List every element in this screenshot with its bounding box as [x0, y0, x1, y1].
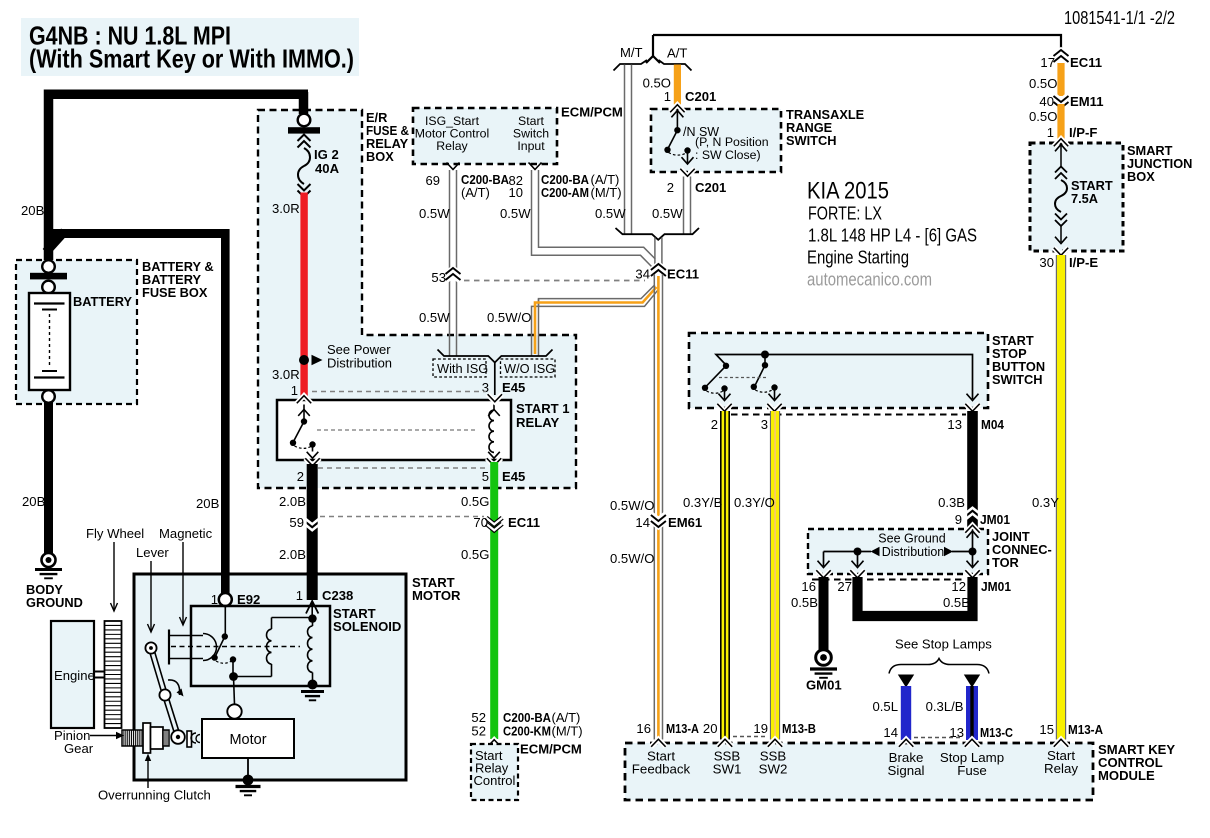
connector E92 circle — [219, 593, 232, 606]
svg-text:27: 27 — [837, 579, 852, 594]
svg-text:EC11: EC11 — [1070, 55, 1102, 70]
svg-text:MOTOR: MOTOR — [412, 588, 461, 603]
svg-text:12: 12 — [951, 579, 966, 594]
start relay control box — [487, 740, 501, 748]
svg-text:GM01: GM01 — [806, 678, 842, 693]
wire 0.5L brake signal — [901, 686, 911, 740]
wire 0.3Y/O SSB SW2 — [770, 411, 772, 740]
wire battery feed top — [44, 90, 54, 262]
svg-text:BOX: BOX — [366, 149, 394, 164]
TRS pin 1 notch — [670, 105, 684, 113]
svg-text:0.5W: 0.5W — [652, 206, 683, 221]
funnel into With ISG — [438, 350, 495, 363]
svg-text:13: 13 — [947, 417, 962, 432]
svg-text:52: 52 — [471, 724, 486, 739]
dashed connector line JM01 — [812, 579, 966, 581]
fly wheel gear — [105, 621, 122, 728]
svg-text:IG 2: IG 2 — [314, 147, 339, 162]
JC internal wires — [967, 531, 979, 538]
pin 69 connector leave — [447, 163, 460, 170]
svg-text:0.3Y/O: 0.3Y/O — [734, 495, 775, 510]
svg-text:9: 9 — [955, 512, 962, 527]
svg-text:1: 1 — [1047, 125, 1054, 140]
W/O ISG box — [501, 359, 556, 377]
dashed connector line M04 — [731, 414, 966, 416]
svg-text:M/T: M/T — [620, 45, 643, 60]
engine flywheel link — [94, 671, 105, 673]
svg-text:40A: 40A — [315, 161, 340, 176]
smart key control module box — [625, 743, 1093, 800]
svg-text:0.5G: 0.5G — [461, 547, 489, 562]
SSB internal wire — [716, 355, 973, 400]
svg-text:0.3Y/B: 0.3Y/B — [683, 495, 723, 510]
fuse IG 2 40A — [298, 135, 311, 142]
JC bottom notches — [816, 570, 830, 578]
svg-text:EC11: EC11 — [508, 515, 540, 530]
svg-text:0.5W/O: 0.5W/O — [610, 551, 654, 566]
connector 40 EM11 — [1054, 96, 1069, 102]
SKCM pin notches — [651, 739, 665, 747]
svg-text:ECM/PCM: ECM/PCM — [561, 105, 623, 120]
svg-text:FORTE: LX: FORTE: LX — [808, 204, 882, 224]
svg-text:(M/T): (M/T) — [591, 185, 622, 200]
svg-text:Magnetic: Magnetic — [159, 526, 213, 541]
relay internal dashed link — [317, 429, 478, 431]
svg-text:I/P-F: I/P-F — [1069, 125, 1097, 140]
svg-text:3: 3 — [482, 380, 489, 395]
svg-text:0.5W: 0.5W — [595, 206, 626, 221]
wire C238 stub inside box — [307, 572, 318, 600]
title block — [21, 18, 359, 76]
svg-text:59: 59 — [289, 515, 304, 530]
svg-text:0.5W: 0.5W — [419, 206, 450, 221]
wire 0.3Y/B SSB SW1 — [720, 411, 730, 740]
wire top right run — [653, 35, 1061, 55]
joint connector box — [808, 529, 988, 574]
start motor box — [134, 574, 406, 780]
svg-text:0.5W/O: 0.5W/O — [610, 498, 654, 513]
wire 0.3B SSB — [967, 411, 978, 529]
smart junction box — [1030, 143, 1123, 251]
svg-text:automecanico.com: automecanico.com — [807, 269, 932, 290]
wire TRS to EC11 white — [683, 177, 685, 234]
svg-text:0.5W: 0.5W — [500, 206, 531, 221]
wire to relay pin 3 — [494, 363, 496, 396]
dashed connector line 59-70 — [320, 516, 484, 518]
svg-text:With ISG: With ISG — [437, 361, 488, 376]
battery fuse connector circles — [42, 260, 55, 273]
motor box — [202, 719, 294, 758]
E/R fuse and relay box region — [258, 110, 576, 488]
start 1 relay box — [277, 400, 511, 460]
wire 0.3L/B stop lamp fuse — [966, 686, 978, 740]
svg-text:M13-A: M13-A — [1068, 722, 1103, 737]
svg-text:2: 2 — [297, 469, 304, 484]
svg-text:START 1: START 1 — [516, 401, 570, 416]
svg-text:I/P-E: I/P-E — [1069, 255, 1098, 270]
svg-text:34: 34 — [635, 267, 650, 282]
relay pin notches — [297, 396, 311, 404]
ground GM01 — [816, 650, 832, 666]
svg-text:0.5W: 0.5W — [419, 310, 450, 325]
svg-text:0.5G: 0.5G — [461, 494, 489, 509]
wire 0.5O to I/P-F — [1057, 104, 1064, 140]
pull-in coil — [234, 676, 272, 678]
svg-text:0.5B: 0.5B — [943, 595, 970, 610]
ECM/PCM module box — [413, 108, 557, 164]
svg-text:M13-A: M13-A — [666, 721, 699, 736]
svg-text:Gear: Gear — [64, 741, 94, 756]
svg-text:Motor: Motor — [229, 732, 266, 748]
svg-text:17: 17 — [1040, 55, 1055, 70]
connector 70 EC11 — [486, 518, 502, 525]
svg-text:RELAY: RELAY — [516, 415, 559, 430]
merge funnel into EC11 — [616, 228, 700, 240]
svg-text:2: 2 — [711, 417, 718, 432]
svg-text:20B: 20B — [22, 494, 46, 509]
svg-text:Relay: Relay — [1044, 761, 1078, 776]
svg-text:KIA 2015: KIA 2015 — [807, 178, 889, 205]
svg-text:(M/T): (M/T) — [552, 724, 583, 739]
svg-text:69: 69 — [426, 173, 440, 188]
dashed connector line E45 bottom — [318, 467, 486, 469]
svg-text:40: 40 — [1039, 94, 1054, 109]
pin 82/10 connector leave — [529, 163, 542, 170]
svg-text:Overrunning Clutch: Overrunning Clutch — [98, 788, 211, 803]
magnetic plunger — [168, 630, 170, 665]
svg-text:See Ground: See Ground — [878, 532, 945, 546]
svg-text:Fly Wheel: Fly Wheel — [86, 526, 144, 541]
svg-text:JM01: JM01 — [981, 579, 1011, 594]
svg-text:FUSE BOX: FUSE BOX — [142, 285, 208, 300]
E/R box connector circle — [298, 114, 311, 127]
lever linkage — [151, 648, 165, 695]
svg-text:Relay: Relay — [436, 139, 468, 153]
fuse START 7.5A — [1055, 145, 1067, 152]
svg-text:3.0R: 3.0R — [272, 201, 300, 216]
connector 17 EC11 — [1054, 56, 1069, 62]
wire 0.5G green — [490, 462, 498, 739]
svg-text:20: 20 — [703, 721, 718, 736]
wire 0.5B U-link 27-12 — [858, 577, 973, 616]
start solenoid box — [191, 606, 330, 686]
svg-text:TOR: TOR — [992, 555, 1019, 570]
wire 0.3Y yellow start relay — [1055, 255, 1057, 740]
battery and battery fuse box — [16, 260, 137, 404]
svg-text:C201: C201 — [695, 180, 726, 195]
M/T A/T split — [646, 35, 653, 63]
svg-text:0.5O: 0.5O — [1029, 76, 1057, 91]
engine box — [51, 621, 94, 728]
relay coil — [488, 410, 500, 416]
wire 0.5W/O branch to W/O ISG — [539, 285, 655, 307]
svg-text:1.8L 148 HP L4 - [6] GAS: 1.8L 148 HP L4 - [6] GAS — [808, 226, 977, 246]
svg-text:SWITCH: SWITCH — [992, 372, 1042, 387]
svg-text:JM01: JM01 — [980, 512, 1010, 527]
connector 14 EM61 — [651, 515, 666, 521]
JC top notch — [965, 525, 979, 533]
svg-text:: SW Close): : SW Close) — [695, 148, 761, 162]
svg-text:C238: C238 — [322, 588, 353, 603]
svg-text:20B: 20B — [196, 496, 220, 511]
shaft pieces — [187, 731, 192, 747]
svg-text:M04: M04 — [981, 417, 1005, 432]
connector 53 EC11 — [446, 274, 461, 280]
wire battery to body ground — [44, 402, 53, 553]
svg-text:C200-AM: C200-AM — [541, 185, 589, 200]
svg-text:Engine: Engine — [54, 668, 95, 683]
arrow from stop lamps fuse — [964, 675, 980, 688]
wire 3.0R red — [300, 193, 307, 399]
svg-text:W/O ISG: W/O ISG — [504, 361, 555, 376]
wire M/T white down — [624, 65, 626, 234]
svg-text:0.5O: 0.5O — [1029, 109, 1057, 124]
wire 0.5W/O start feedback — [653, 274, 655, 740]
svg-text:15: 15 — [1039, 722, 1054, 737]
svg-text:30: 30 — [1039, 255, 1054, 270]
svg-text:0.5L: 0.5L — [873, 699, 898, 714]
svg-text:7.5A: 7.5A — [1071, 191, 1098, 206]
TRS pin 2 notch — [680, 169, 694, 177]
svg-text:See Stop Lamps: See Stop Lamps — [895, 637, 992, 652]
SSB mechanical dashed link — [719, 377, 766, 379]
With ISG box — [433, 359, 486, 377]
svg-text:0.5B: 0.5B — [791, 595, 818, 610]
merged wire to connector 34 — [654, 238, 656, 267]
dashed connector line E45 top — [312, 391, 486, 393]
svg-text:2: 2 — [667, 180, 674, 195]
pinion gear hatch — [122, 730, 143, 746]
wire E92 stub inside box — [221, 572, 230, 594]
dashed connector line 53-34 — [464, 280, 645, 282]
svg-text:C200-KM: C200-KM — [503, 724, 551, 739]
svg-text:SW2: SW2 — [759, 762, 788, 777]
svg-text:ECM/PCM: ECM/PCM — [520, 742, 582, 757]
wire branch to starter E92 — [44, 229, 226, 238]
connector 9 JM01 — [965, 514, 981, 521]
svg-text:E45: E45 — [502, 469, 525, 484]
fuse holder bar — [288, 127, 320, 133]
svg-text:5: 5 — [482, 469, 489, 484]
svg-text:MODULE: MODULE — [1098, 768, 1155, 783]
svg-text:14: 14 — [635, 515, 650, 530]
svg-text:0.5W/O: 0.5W/O — [487, 310, 531, 325]
svg-text:(P, N Position: (P, N Position — [695, 135, 769, 149]
svg-text:EM61: EM61 — [668, 515, 702, 530]
svg-text:Fuse: Fuse — [957, 763, 987, 778]
svg-text:0.3B: 0.3B — [938, 495, 965, 510]
body ground — [42, 553, 56, 567]
svg-text:3.0R: 3.0R — [272, 367, 300, 382]
start stop button switch box — [689, 333, 988, 408]
wire 2.0B to starter — [307, 464, 318, 600]
svg-text:(A/T): (A/T) — [461, 185, 490, 200]
funnel into W/O ISG — [495, 350, 553, 363]
solenoid switch — [224, 606, 226, 635]
svg-text:EM11: EM11 — [1070, 94, 1103, 109]
svg-text:SW1: SW1 — [713, 762, 742, 777]
svg-text:Control: Control — [474, 773, 516, 788]
svg-text:Distribution: Distribution — [882, 545, 945, 559]
svg-text:C201: C201 — [685, 89, 716, 104]
svg-text:20B: 20B — [21, 203, 45, 218]
junction see power distribution — [299, 355, 309, 365]
svg-text:2.0B: 2.0B — [279, 494, 306, 509]
rotation arrow — [168, 680, 180, 695]
svg-text:EC11: EC11 — [667, 267, 699, 282]
transaxle range switch box — [651, 109, 781, 172]
wire 69 to With ISG white — [449, 170, 451, 356]
overrunning clutch block — [143, 723, 151, 753]
wire 0.5O orange A/T — [674, 65, 681, 105]
svg-text:A/T: A/T — [667, 46, 687, 61]
svg-text:Signal: Signal — [888, 763, 925, 778]
solenoid dashed axis — [171, 646, 300, 648]
motor ground — [247, 758, 249, 777]
svg-text:14: 14 — [883, 725, 898, 740]
svg-text:70: 70 — [473, 515, 488, 530]
svg-text:53: 53 — [431, 270, 446, 285]
svg-text:1081541-1/1 -2/2: 1081541-1/1 -2/2 — [1064, 8, 1175, 28]
brace — [889, 659, 989, 674]
relay switch — [298, 410, 310, 416]
svg-text:BATTERY: BATTERY — [73, 294, 132, 309]
svg-text:Feedback: Feedback — [632, 762, 691, 777]
svg-text:2.0B: 2.0B — [279, 547, 306, 562]
wire 0.5B to GM01 — [819, 577, 829, 650]
SJB pin 30 notch — [1054, 248, 1068, 256]
svg-text:M13-B: M13-B — [782, 721, 816, 736]
hold-in coil — [308, 614, 316, 622]
wire 82/10 white to EC11 junction — [532, 170, 652, 267]
SJB pin 1 notch — [1054, 139, 1068, 147]
connector 34 EC11 — [651, 270, 666, 276]
svg-text:0.3L/B: 0.3L/B — [926, 699, 964, 714]
svg-text:Engine Starting: Engine Starting — [807, 247, 909, 268]
svg-text:BOX: BOX — [1127, 169, 1155, 184]
svg-text:E45: E45 — [502, 380, 525, 395]
SSB switch 2 — [764, 355, 766, 365]
svg-text:Lever: Lever — [136, 545, 169, 560]
svg-text:16: 16 — [636, 721, 651, 736]
SSB switch 1 — [723, 363, 729, 369]
svg-text:SOLENOID: SOLENOID — [333, 619, 401, 634]
dashed connector line M13-C — [914, 737, 962, 739]
wire to motor terminal — [234, 677, 235, 705]
svg-text:Input: Input — [517, 139, 545, 153]
M/T bracket — [614, 60, 648, 71]
svg-text:19: 19 — [753, 721, 768, 736]
svg-text:10: 10 — [509, 185, 523, 200]
svg-text:16: 16 — [801, 579, 816, 594]
svg-text:1: 1 — [664, 89, 671, 104]
battery symbol — [29, 293, 70, 390]
svg-text:0.3Y: 0.3Y — [1032, 495, 1059, 510]
svg-text:1: 1 — [291, 383, 298, 398]
P/N switch — [671, 111, 683, 118]
solenoid ground — [308, 680, 318, 690]
connector 59 EC11 — [304, 518, 320, 525]
svg-text:3: 3 — [761, 417, 768, 432]
arrow from stop lamps brake — [898, 675, 914, 688]
A/T bracket — [659, 60, 692, 71]
svg-text:Distribution: Distribution — [327, 356, 392, 371]
dashed connector line M13-B — [733, 736, 767, 738]
svg-text:GROUND: GROUND — [26, 595, 83, 610]
svg-text:SWITCH: SWITCH — [786, 133, 836, 148]
wire 0.5O to EM11 — [1057, 63, 1064, 96]
svg-text:1: 1 — [296, 588, 303, 603]
svg-text:M13-C: M13-C — [980, 725, 1013, 740]
svg-text:(With Smart Key or With IMMO.): (With Smart Key or With IMMO.) — [29, 44, 354, 74]
SSB pin notches — [717, 404, 731, 412]
